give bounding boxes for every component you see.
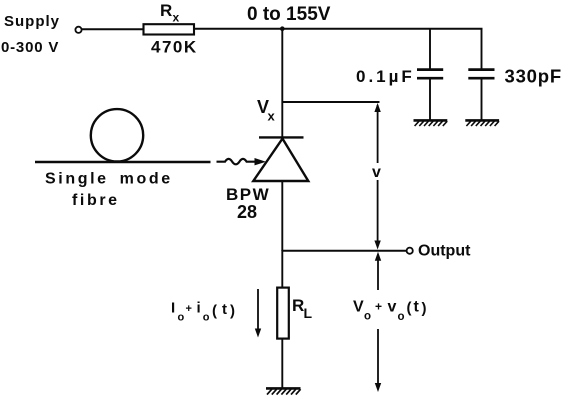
terminal supply input <box>75 27 81 33</box>
node junction top rail <box>280 26 285 31</box>
svg-text:): ) <box>230 303 235 320</box>
ground under C1 <box>414 120 448 126</box>
svg-text:Supply: Supply <box>4 13 60 30</box>
wire output node down to RL <box>281 250 283 288</box>
svg-text:V: V <box>353 299 364 316</box>
svg-text:o: o <box>178 312 185 324</box>
svg-text:x: x <box>173 11 180 25</box>
photodiode D1 cathode bar <box>259 136 304 138</box>
light arrow into photodiode <box>217 158 267 165</box>
svg-text:R: R <box>160 1 172 20</box>
svg-text:Output: Output <box>418 243 471 260</box>
ground main below RL <box>266 388 301 394</box>
svg-text:(: ( <box>212 303 217 320</box>
svg-text:L: L <box>304 305 313 321</box>
label Io+io(t) <box>171 300 235 324</box>
node Vx reference line <box>282 101 379 103</box>
svg-text:+: + <box>375 300 382 314</box>
svg-text:+: + <box>186 303 192 315</box>
svg-text:28: 28 <box>237 202 257 222</box>
svg-text:o: o <box>398 311 405 323</box>
wire photodiode anode to output node <box>281 182 283 251</box>
wire output line <box>282 250 406 252</box>
resistor RL <box>277 288 289 339</box>
svg-text:Single mode: Single mode <box>45 171 173 188</box>
capacitor C2 330pF <box>468 29 494 120</box>
svg-text:fibre: fibre <box>72 192 120 209</box>
resistor Rx <box>144 24 195 34</box>
svg-text:o: o <box>203 312 210 324</box>
svg-text:0 to 155V: 0 to 155V <box>247 4 331 25</box>
svg-text:i: i <box>197 300 201 317</box>
terminal output <box>407 248 413 254</box>
svg-text:(: ( <box>407 300 412 317</box>
Vo measurement arrow <box>375 252 381 392</box>
svg-text:0-300 V: 0-300 V <box>1 39 59 56</box>
svg-text:): ) <box>422 300 427 317</box>
capacitor C1 0.1uF <box>417 29 443 120</box>
wire supply terminal to resistor Rx <box>82 28 144 30</box>
svg-text:470K: 470K <box>151 38 198 57</box>
svg-text:I: I <box>171 300 175 317</box>
photodiode D1 triangle <box>253 139 308 181</box>
wire Rx to junction and top rail to C2 <box>194 28 483 30</box>
svg-text:o: o <box>364 311 371 323</box>
svg-text:R: R <box>292 296 304 315</box>
v measurement arrow <box>374 103 380 250</box>
label Vo+vo(t) <box>353 299 427 324</box>
svg-text:v: v <box>388 299 397 316</box>
svg-text:v: v <box>372 164 381 181</box>
fibre line <box>35 161 211 164</box>
wire main vertical from rail to photodiode <box>281 29 283 137</box>
svg-text:0.1µF: 0.1µF <box>356 67 415 86</box>
wire RL to ground <box>281 339 283 388</box>
svg-text:t: t <box>222 301 227 318</box>
svg-text:t: t <box>414 299 420 316</box>
svg-text:x: x <box>268 109 276 124</box>
svg-text:330pF: 330pF <box>505 66 561 87</box>
ground under C2 <box>465 120 499 126</box>
current arrow Io+io(t) <box>255 289 261 338</box>
fibre loop <box>91 109 143 161</box>
